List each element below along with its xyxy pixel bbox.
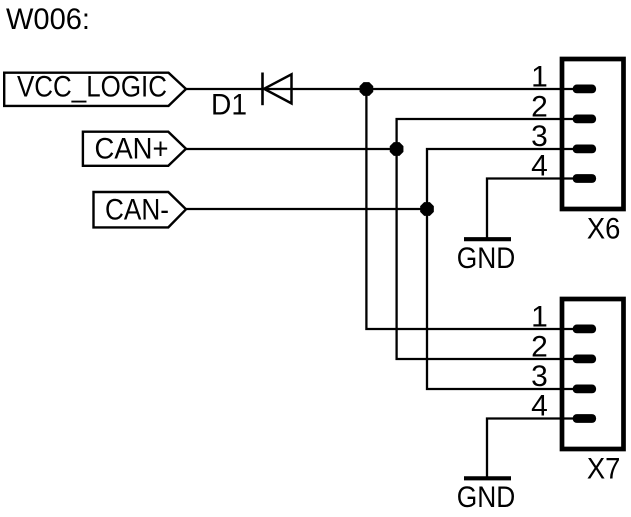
- X7 pin 3: [531, 360, 596, 393]
- svg-text:X6: X6: [587, 213, 621, 246]
- diode D1: [211, 73, 292, 122]
- X7 pin 2: [531, 331, 596, 364]
- svg-text:3: 3: [531, 120, 548, 153]
- svg-text:CAN-: CAN-: [105, 194, 169, 227]
- wire VCC_LOGIC net (row 89, diode to X6 pin 1): [185, 88, 574, 90]
- wire CAN- vertical, X6 pin 3 to X7 pin 3: [427, 149, 574, 389]
- svg-text:VCC_LOGIC: VCC_LOGIC: [17, 71, 167, 104]
- wire X7 pin 4 to GND: [487, 419, 574, 479]
- X6 pin 4: [531, 150, 596, 183]
- svg-text:W006:: W006:: [6, 3, 90, 36]
- ground GND (X6): [457, 239, 516, 275]
- svg-text:2: 2: [531, 91, 548, 124]
- connector X7 body: [562, 299, 624, 486]
- svg-text:4: 4: [531, 390, 548, 423]
- X7 pin 1: [531, 300, 596, 333]
- junction dot CAN-: [420, 202, 434, 216]
- svg-text:GND: GND: [457, 481, 516, 514]
- junction dot VCC/X6.1/X7.1: [360, 82, 374, 96]
- X6 pin 3: [531, 120, 596, 153]
- net label CAN-: [94, 192, 187, 227]
- svg-text:D1: D1: [211, 89, 247, 122]
- junction dot CAN+: [390, 142, 404, 156]
- svg-text:3: 3: [531, 360, 548, 393]
- svg-text:CAN+: CAN+: [95, 133, 169, 166]
- svg-text:GND: GND: [457, 242, 516, 275]
- X7 pin 4: [531, 390, 596, 423]
- wire VCC_LOGIC vertical to X7 pin 1: [366, 89, 574, 329]
- svg-text:2: 2: [531, 331, 548, 364]
- net label VCC_LOGIC: [4, 71, 186, 106]
- net label CAN+: [83, 132, 186, 166]
- wire X6 pin 4 to GND: [487, 179, 574, 240]
- svg-text:4: 4: [531, 150, 548, 183]
- svg-text:1: 1: [531, 300, 548, 333]
- svg-text:1: 1: [531, 60, 548, 93]
- X6 pin 1: [531, 60, 596, 93]
- connector X6 body: [562, 59, 624, 246]
- wire CAN+ vertical, X6 pin 2 to X7 pin 2: [397, 119, 574, 359]
- wire CAN- horizontal: [185, 208, 427, 210]
- ground GND (X7): [457, 478, 516, 514]
- X6 pin 2: [531, 91, 596, 124]
- svg-text:X7: X7: [587, 453, 621, 486]
- wire CAN+ horizontal: [185, 148, 397, 150]
